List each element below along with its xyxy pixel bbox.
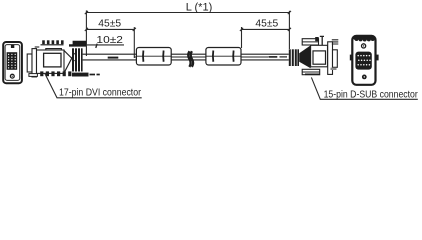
D-SUB side view body	[311, 45, 328, 67]
DVI side view flange	[32, 49, 37, 77]
DVI side view mating stub	[27, 54, 32, 72]
DVI side view body top cap	[46, 49, 62, 50]
ferrule box 2 inner mark right	[232, 51, 234, 62]
D-SUB front view top screw	[362, 44, 366, 48]
svg-text:45±5: 45±5	[255, 19, 278, 30]
ferrule box 2 centerline	[206, 55, 241, 57]
D-SUB side view flange	[328, 42, 333, 75]
svg-text:45±5: 45±5	[98, 19, 121, 30]
DVI front view inner outline	[5, 45, 20, 81]
dimension 45±5 left	[85, 28, 136, 31]
extension line at ferrule box 2	[241, 27, 243, 48]
DVI side view flange top step	[35, 46, 40, 48]
cable break symbol	[188, 51, 193, 67]
DVI side view bottom-left step	[29, 74, 38, 77]
DVI bottom screw hidden dashes	[90, 74, 100, 76]
dimension 45±5 right	[240, 28, 291, 31]
D-SUB side view top thumbscrew box	[302, 39, 318, 45]
D-SUB side view rear screw head	[332, 40, 339, 44]
ferrule box 1 inner mark left	[142, 51, 144, 62]
svg-text:15-pin D-SUB connector: 15-pin D-SUB connector	[324, 89, 419, 101]
ferrule box 1 centerline	[136, 55, 171, 57]
extension line at ferrule box 1	[133, 27, 135, 58]
DVI top thumbscrew knurl teeth	[42, 40, 63, 44]
label leader DVI	[45, 73, 142, 98]
DVI side view inner rect	[44, 53, 61, 67]
DVI top thumbscrew knob	[69, 41, 86, 47]
D-SUB side view bottom thumbscrew box	[302, 69, 320, 74]
cable centerline thin	[134, 56, 268, 58]
label leader D-SUB	[311, 77, 417, 99]
DVI front view pin block	[7, 52, 18, 70]
DVI side view body	[37, 50, 65, 73]
ferrule box 1	[136, 48, 171, 66]
svg-text:L (*1): L (*1)	[186, 1, 213, 13]
svg-text:17-pin DVI connector: 17-pin DVI connector	[59, 87, 141, 99]
D-SUB front view bottom screw	[362, 75, 367, 80]
cable bottom line	[83, 59, 289, 61]
D-SUB front view D face	[355, 52, 371, 70]
ferrule box 2 inner mark left	[212, 51, 214, 62]
DVI front view pin dots	[8, 54, 16, 69]
D-SUB front view outer shell	[352, 36, 375, 85]
dimension L (*1)	[85, 11, 291, 14]
svg-text:10±2: 10±2	[96, 35, 123, 46]
DVI front view bottom screw	[10, 74, 14, 78]
D-SUB front view pin dots	[357, 55, 370, 66]
D-SUB front view right tab	[376, 55, 378, 61]
D-SUB side view boot cone	[299, 45, 310, 68]
D-SUB side view boot knurl block	[289, 49, 299, 66]
cable centerline thick dash 2	[268, 56, 277, 58]
DVI front view top screw	[11, 45, 14, 48]
DVI connector front view outer shell	[3, 42, 22, 83]
DVI boot knurl block	[72, 48, 83, 71]
ferrule box 1 inner mark right	[162, 51, 164, 62]
cable centerline thick dash 1	[108, 57, 119, 59]
cable centerline dash 3	[280, 56, 288, 58]
DVI boot taper	[64, 51, 75, 74]
D-SUB side view flange top post	[320, 36, 324, 46]
D-SUB front view knurl band	[353, 36, 374, 40]
D-SUB front view left tab	[350, 55, 352, 61]
DVI bottom thumbscrew knob	[72, 73, 89, 77]
extension line left (cable start)	[85, 10, 87, 56]
extension line right (cable end)	[288, 11, 290, 49]
cable top line	[83, 53, 289, 55]
ferrule box 2	[206, 48, 241, 66]
D-SUB side view inner rect	[313, 51, 326, 64]
D-SUB side view mating stub	[333, 50, 338, 68]
DVI top thumbscrew shaft line	[41, 44, 64, 46]
dimension 10±2	[87, 44, 124, 48]
D-SUB side view stub shadow	[331, 68, 337, 70]
DVI bottom thumbscrew knurl teeth	[40, 71, 71, 76]
